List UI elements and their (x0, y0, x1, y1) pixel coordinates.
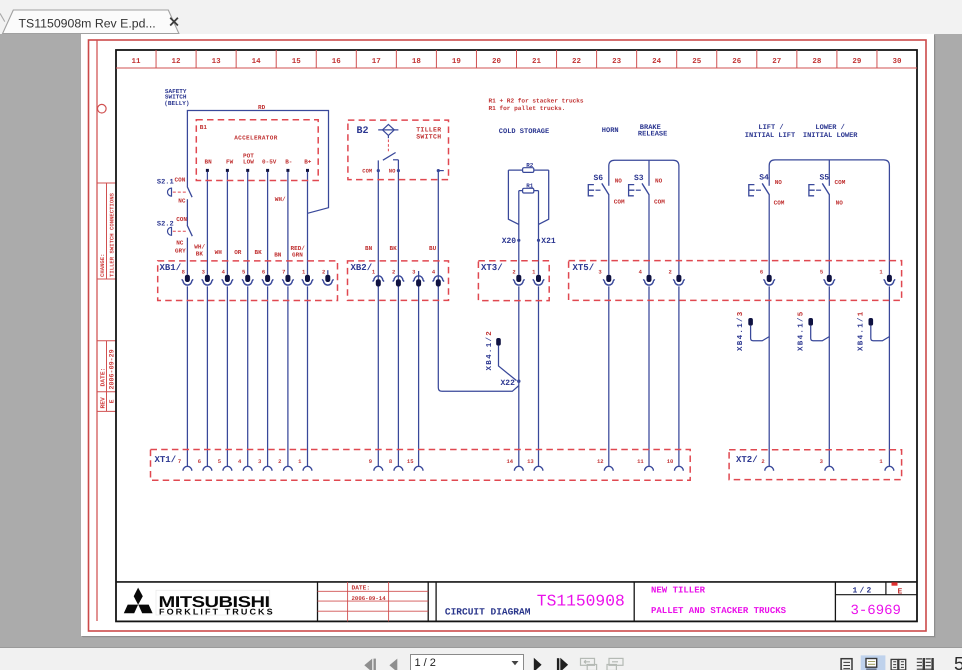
svg-text:BK: BK (196, 251, 204, 258)
svg-text:LOW: LOW (243, 158, 254, 165)
svg-text:HORN: HORN (602, 127, 619, 135)
svg-text:15: 15 (292, 58, 302, 66)
svg-text:15: 15 (407, 458, 414, 465)
svg-text:2: 2 (669, 268, 672, 275)
svg-text:S5: S5 (820, 174, 830, 183)
svg-text:5: 5 (218, 458, 222, 465)
svg-text:B-: B- (285, 158, 292, 165)
svg-text:XB2/: XB2/ (351, 263, 373, 273)
svg-text:XB4.1/5: XB4.1/5 (796, 310, 805, 351)
svg-text:DATE:: DATE: (352, 584, 371, 591)
svg-text:RELEASE: RELEASE (638, 131, 667, 139)
svg-text:NC: NC (176, 240, 184, 247)
svg-text:COM: COM (774, 199, 785, 206)
svg-text:DATE:: DATE: (99, 368, 106, 387)
svg-text:COM: COM (835, 179, 846, 186)
svg-text:8: 8 (389, 458, 393, 465)
svg-text:24: 24 (652, 57, 662, 66)
svg-text:S6: S6 (594, 174, 604, 183)
svg-text:WH/: WH/ (275, 196, 286, 203)
svg-text:ACCELERATOR: ACCELERATOR (234, 135, 278, 142)
svg-text:TILLER: TILLER (416, 126, 441, 133)
svg-text:X20: X20 (502, 237, 517, 246)
svg-text:2006-09-14: 2006-09-14 (352, 595, 387, 602)
svg-text:7: 7 (178, 458, 181, 465)
svg-text:3-6969: 3-6969 (851, 603, 901, 619)
svg-text:4: 4 (222, 268, 226, 275)
svg-text:11: 11 (131, 58, 141, 66)
svg-text:25: 25 (692, 57, 702, 66)
svg-text:INITIAL LOWER: INITIAL LOWER (803, 132, 858, 140)
svg-text:TS1150908: TS1150908 (537, 591, 625, 610)
svg-text:TILLER SWITCH CONNECTIONS: TILLER SWITCH CONNECTIONS (108, 192, 115, 277)
svg-text:3: 3 (412, 268, 416, 275)
svg-text:3: 3 (202, 268, 206, 275)
svg-text:3: 3 (258, 458, 262, 465)
svg-text:23: 23 (612, 57, 622, 66)
svg-text:12: 12 (597, 458, 604, 465)
svg-text:2: 2 (761, 458, 764, 465)
svg-text:COM: COM (362, 167, 373, 174)
svg-text:FORKLIFT TRUCKS: FORKLIFT TRUCKS (159, 606, 275, 616)
svg-text:XT5/: XT5/ (573, 263, 595, 273)
svg-text:XT3/: XT3/ (481, 263, 503, 273)
svg-text:S2.1: S2.1 (157, 179, 174, 187)
svg-text:XB4.1/3: XB4.1/3 (736, 310, 745, 351)
svg-text:16: 16 (332, 57, 342, 66)
svg-text:COM: COM (654, 199, 665, 206)
svg-text:NO: NO (615, 177, 623, 184)
svg-text:13: 13 (527, 458, 534, 465)
svg-text:2: 2 (512, 268, 515, 275)
svg-text:RD: RD (258, 104, 266, 111)
svg-text:COM: COM (614, 199, 625, 206)
svg-text:5: 5 (954, 653, 962, 670)
svg-text:19: 19 (452, 57, 462, 66)
svg-text:NEW TILLER: NEW TILLER (651, 586, 706, 596)
svg-text:E: E (109, 399, 116, 403)
svg-text:BN: BN (274, 252, 282, 259)
svg-text:0-5V: 0-5V (262, 158, 277, 165)
svg-text:6: 6 (760, 268, 763, 275)
svg-text:OR: OR (234, 249, 242, 256)
svg-text:B1: B1 (200, 124, 208, 131)
svg-text:21: 21 (532, 57, 542, 66)
svg-text:18: 18 (412, 57, 422, 66)
svg-text:BU: BU (429, 245, 437, 252)
svg-text:B2: B2 (357, 126, 369, 137)
svg-text:CIRCUIT DIAGRAM: CIRCUIT DIAGRAM (445, 607, 531, 618)
svg-text:R2: R2 (526, 162, 534, 169)
svg-text:BN: BN (365, 245, 373, 252)
svg-text:17: 17 (372, 58, 381, 66)
svg-text:5: 5 (242, 268, 246, 275)
svg-text:11: 11 (637, 458, 644, 465)
svg-text:R1 for pallet trucks.: R1 for pallet trucks. (489, 105, 566, 112)
svg-text:LOWER /: LOWER / (815, 123, 844, 132)
svg-text:BK: BK (255, 249, 263, 256)
svg-text:1: 1 (879, 458, 883, 465)
svg-text:(BELLY): (BELLY) (164, 100, 189, 107)
svg-text:20: 20 (492, 57, 502, 66)
svg-text:NC: NC (178, 197, 186, 204)
svg-text:6: 6 (198, 458, 201, 465)
svg-text:R1: R1 (526, 183, 534, 190)
svg-text:S3: S3 (634, 174, 644, 183)
svg-text:LIFT /: LIFT / (758, 123, 783, 132)
svg-text:S4: S4 (759, 174, 769, 183)
svg-text:27: 27 (772, 57, 781, 66)
svg-text:XB4.1/2: XB4.1/2 (485, 330, 494, 371)
svg-text:WH: WH (215, 249, 223, 256)
svg-text:E: E (898, 587, 903, 596)
svg-text:3: 3 (820, 458, 824, 465)
svg-text:1: 1 (298, 458, 302, 465)
svg-text:1/2: 1/2 (853, 586, 874, 595)
svg-text:PALLET AND STACKER TRUCKS: PALLET AND STACKER TRUCKS (651, 606, 787, 616)
svg-text:14: 14 (506, 458, 513, 465)
svg-text:12: 12 (172, 57, 182, 66)
svg-text:4: 4 (432, 268, 436, 275)
svg-text:BN: BN (205, 158, 213, 165)
svg-text:30: 30 (892, 57, 902, 66)
svg-text:XB4.1/1: XB4.1/1 (856, 310, 865, 351)
svg-text:2: 2 (322, 268, 325, 275)
svg-text:4: 4 (238, 458, 242, 465)
svg-text:1 / 2: 1 / 2 (415, 657, 436, 669)
svg-text:13: 13 (212, 57, 222, 66)
svg-text:X21: X21 (541, 237, 556, 246)
svg-text:R1 + R2 for stacker trucks: R1 + R2 for stacker trucks (489, 98, 584, 105)
svg-text:XT2/: XT2/ (736, 455, 758, 465)
svg-text:INITIAL LIFT: INITIAL LIFT (745, 132, 795, 140)
svg-text:XT1/: XT1/ (155, 455, 177, 465)
svg-text:7: 7 (282, 268, 285, 275)
svg-text:NO: NO (775, 179, 783, 186)
svg-text:4: 4 (639, 268, 643, 275)
svg-text:26: 26 (732, 57, 742, 66)
svg-text:NO: NO (836, 199, 844, 206)
svg-text:2: 2 (392, 268, 395, 275)
svg-text:X22: X22 (501, 379, 516, 388)
svg-text:BK: BK (390, 245, 398, 252)
svg-text:9: 9 (369, 458, 372, 465)
svg-text:GRN: GRN (292, 252, 303, 259)
svg-text:28: 28 (812, 57, 822, 66)
svg-text:S2.2: S2.2 (157, 220, 174, 228)
svg-text:NO: NO (655, 177, 663, 184)
svg-text:1: 1 (879, 268, 883, 275)
svg-text:GRY: GRY (175, 248, 186, 255)
svg-text:5: 5 (820, 268, 824, 275)
svg-text:SWITCH: SWITCH (416, 133, 441, 140)
svg-text:2: 2 (278, 458, 281, 465)
svg-text:29: 29 (852, 57, 862, 66)
svg-text:XB1/: XB1/ (160, 263, 182, 273)
svg-text:6: 6 (262, 268, 265, 275)
svg-text:FW: FW (226, 158, 234, 165)
svg-text:1: 1 (372, 268, 376, 275)
svg-text:1: 1 (302, 268, 306, 275)
svg-text:10: 10 (667, 458, 674, 465)
svg-text:NO: NO (389, 167, 396, 174)
svg-text:REV: REV (99, 397, 106, 409)
svg-text:1: 1 (532, 268, 536, 275)
svg-text:CON: CON (175, 176, 186, 183)
svg-text:CHANGE:: CHANGE: (99, 254, 106, 278)
svg-text:3: 3 (598, 268, 602, 275)
svg-text:22: 22 (572, 57, 582, 66)
svg-text:8: 8 (182, 268, 186, 275)
svg-text:B+: B+ (304, 158, 312, 165)
svg-text:COLD STORAGE: COLD STORAGE (499, 128, 549, 136)
svg-text:TS1150908m Rev E.pd...: TS1150908m Rev E.pd... (19, 17, 156, 31)
svg-text:14: 14 (252, 58, 262, 66)
svg-text:CON: CON (176, 216, 187, 223)
